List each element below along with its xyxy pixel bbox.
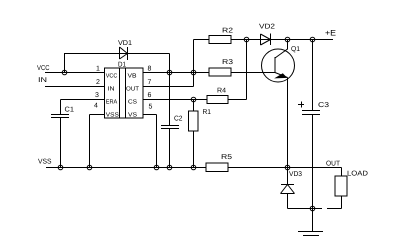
svg-text:4: 4	[94, 103, 98, 110]
wire load top lead	[341, 168, 343, 177]
resistor R2	[209, 36, 231, 44]
diode VD3	[281, 184, 294, 186]
wire pin 7 OUT row	[143, 86, 194, 88]
svg-text:6: 6	[148, 92, 152, 99]
wire IN to pin 2	[45, 86, 104, 88]
wire pin 5 down to rail	[156, 115, 158, 168]
transistor Q1 base bar	[274, 57, 276, 73]
svg-text:VD2: VD2	[259, 24, 275, 31]
junction node VD2 cathode/Q1 collector	[285, 37, 290, 42]
wire pin 4 down to VSS rail	[89, 115, 91, 168]
wire pin 6 CS row to R4	[143, 99, 207, 101]
svg-text:2: 2	[96, 79, 100, 86]
svg-text:VCC: VCC	[37, 65, 50, 72]
svg-text:ERA: ERA	[106, 99, 118, 106]
wire C1 bottom lead	[60, 118, 62, 168]
svg-text:R1: R1	[203, 109, 212, 116]
wire VCC to pin 1	[45, 72, 104, 74]
svg-text:IN: IN	[108, 86, 115, 93]
wire VCC loop left vertical	[64, 54, 66, 73]
resistor R3	[209, 68, 231, 76]
svg-text:LOAD: LOAD	[347, 171, 368, 178]
svg-text:VSS: VSS	[106, 112, 119, 119]
resistor R1	[189, 111, 199, 131]
wire C2 bottom lead	[169, 129, 171, 168]
svg-text:8: 8	[148, 66, 152, 73]
svg-text:D1: D1	[118, 62, 126, 69]
wire R3 to Q1 base	[231, 72, 275, 74]
capacitor C2	[161, 125, 179, 127]
junction node rail/R1	[191, 165, 196, 170]
wire load bottom lead	[341, 196, 343, 209]
wire R4 right lead	[228, 99, 247, 101]
IC D1 box	[105, 68, 144, 118]
junction node R2/VD2 anode	[244, 37, 249, 42]
wire Q1 emitter down to bottom row	[287, 78, 289, 168]
capacitor C1	[51, 114, 69, 116]
wire C3 top lead	[312, 40, 314, 111]
ground bar 1	[298, 231, 323, 233]
wire bottom row R5 to load corner	[228, 167, 342, 169]
svg-text:OUT: OUT	[326, 161, 341, 168]
wire R1 bottom lead	[193, 131, 195, 168]
wire load bottom return dashed segment	[327, 208, 342, 210]
wire R4 node up to R2 row	[246, 40, 248, 100]
capacitor C3	[302, 110, 320, 112]
svg-text:OUT: OUT	[126, 86, 139, 93]
wire pin 5 stub	[143, 114, 157, 116]
resistor R5	[206, 163, 228, 172]
svg-text:R3: R3	[222, 59, 233, 66]
svg-text:VB: VB	[128, 73, 137, 80]
svg-text:VCC: VCC	[106, 73, 118, 80]
diode VD2	[260, 34, 262, 45]
svg-text:C2: C2	[174, 116, 183, 123]
svg-text:VS: VS	[128, 112, 137, 119]
wire R2 right to +E rail end	[231, 39, 333, 41]
wire load bottom return to node	[288, 208, 323, 210]
wire C1 top lead	[60, 100, 62, 115]
junction node rail/pin5	[154, 165, 159, 170]
wire pin 4 stub	[90, 114, 105, 116]
resistor R4	[207, 96, 228, 104]
junction node +E/C3	[310, 37, 315, 42]
svg-text:VD1: VD1	[118, 40, 132, 47]
wire VSS rail	[46, 167, 206, 169]
wire R1 top lead	[193, 100, 195, 112]
svg-text:1: 1	[96, 66, 100, 73]
wire R2 left lead	[194, 39, 210, 41]
svg-text:Q1: Q1	[291, 46, 300, 53]
svg-text:CS: CS	[128, 99, 137, 106]
wire Q1 collector up to rail	[287, 40, 289, 50]
svg-text:3: 3	[95, 92, 99, 99]
wire pin 8 row to R3	[143, 72, 209, 74]
junction node emitter/bottom row	[285, 165, 290, 170]
load resistor box	[335, 176, 347, 196]
junction node rail/C1	[58, 165, 63, 170]
svg-text:R5: R5	[221, 154, 232, 161]
svg-text:C1: C1	[65, 107, 75, 114]
svg-text:VSS: VSS	[38, 159, 52, 166]
junction node ground return	[310, 206, 315, 211]
transistor Q1 emitter diagonal	[275, 73, 288, 78]
svg-text:R2: R2	[222, 28, 233, 35]
ground bar 2	[303, 235, 319, 237]
diode VD1	[119, 47, 121, 59]
wire VD3 anode lead	[287, 194, 289, 209]
junction node pin8/R2 branch	[191, 70, 196, 75]
transistor Q1 collector diagonal	[275, 49, 288, 58]
wire C3 bottom lead down to ground	[312, 115, 314, 232]
svg-text:VD3: VD3	[289, 171, 302, 178]
wire pin 3 to C1	[61, 99, 105, 101]
svg-text:C3: C3	[318, 102, 329, 109]
junction node CS/R1	[191, 97, 196, 102]
svg-text:5: 5	[149, 104, 153, 111]
svg-text:+E: +E	[325, 29, 336, 38]
svg-text:R4: R4	[217, 88, 226, 95]
wire VD1 loop right vertical down through C2	[169, 54, 171, 126]
junction node pin8/VD1 loop	[167, 70, 172, 75]
wire OUT row up to node	[193, 40, 195, 87]
svg-text:IN: IN	[38, 77, 47, 84]
wire VD3 cathode lead from emitter row	[287, 168, 289, 185]
junction node rail/pin4	[87, 165, 92, 170]
junction node rail/C2	[167, 165, 172, 170]
wire VCC top loop horizontal	[64, 53, 170, 55]
C3 plus sign	[298, 104, 304, 106]
svg-text:7: 7	[148, 79, 152, 86]
junction node VCC/pin1	[62, 70, 67, 75]
transistor Q1 emitter arrow	[274, 73, 287, 78]
transistor Q1 circle	[262, 49, 295, 82]
